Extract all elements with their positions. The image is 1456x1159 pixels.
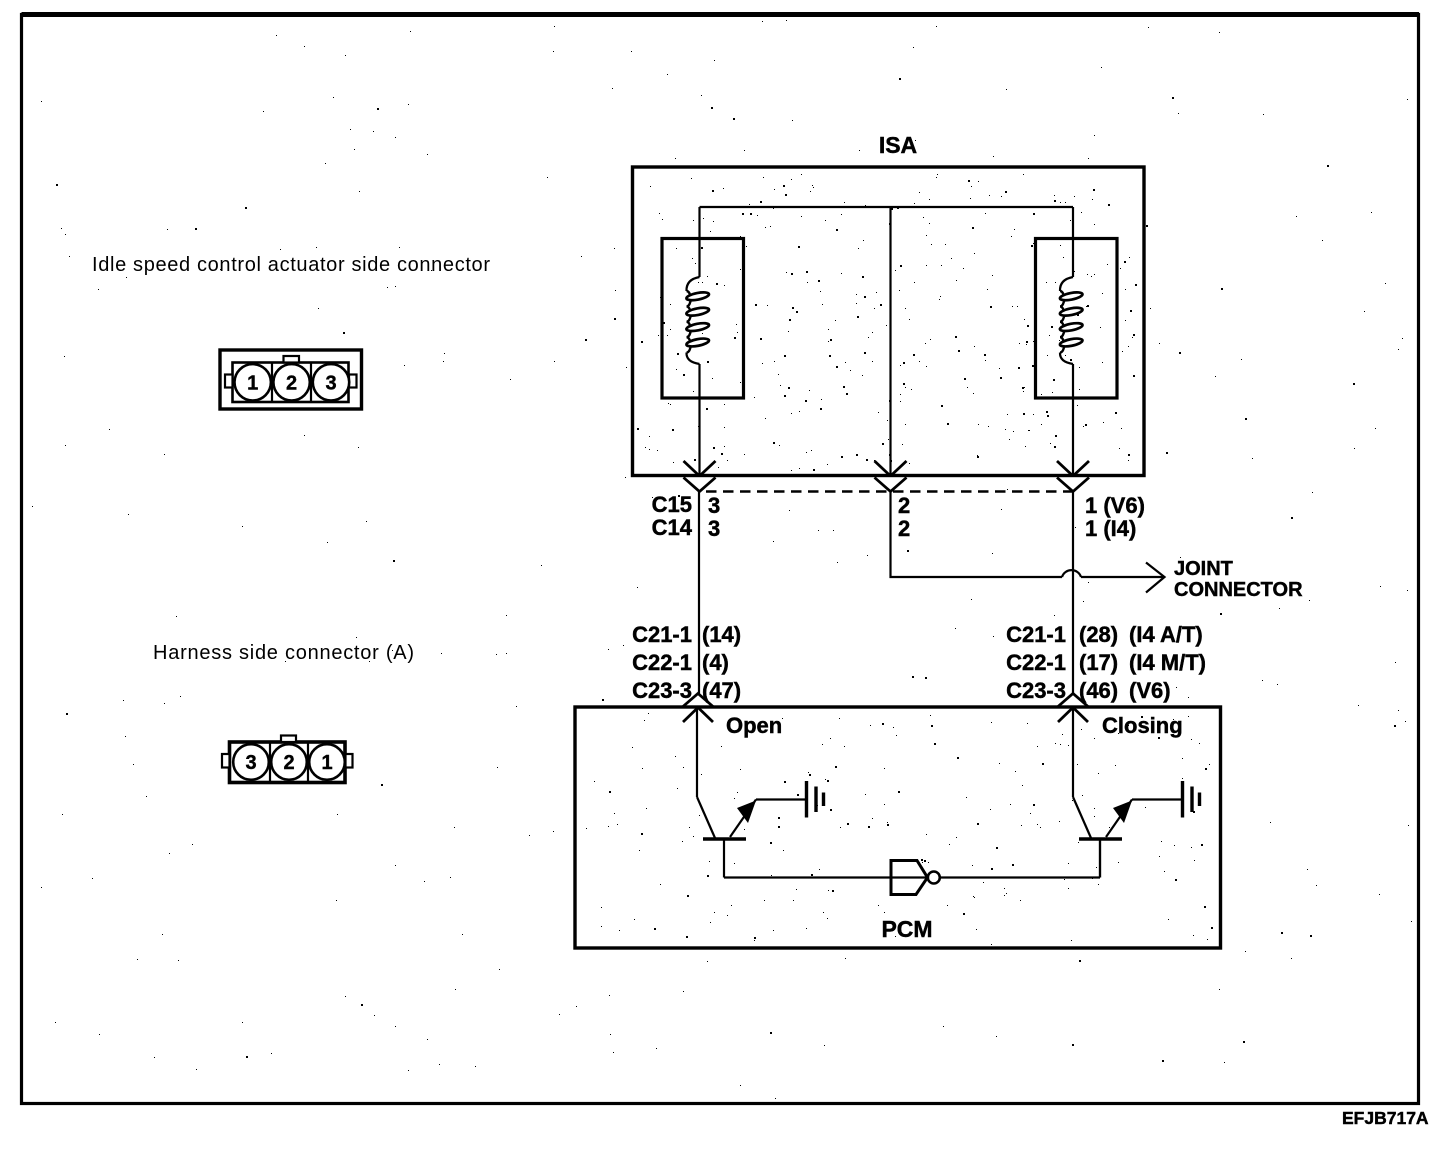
- svg-text:(V6): (V6): [1129, 678, 1171, 703]
- svg-text:(28): (28): [1079, 622, 1118, 647]
- svg-text:C15: C15: [652, 492, 692, 517]
- svg-text:C21-1: C21-1: [632, 622, 692, 647]
- svg-text:C14: C14: [652, 515, 693, 540]
- svg-text:(17): (17): [1079, 650, 1118, 675]
- svg-text:C22-1: C22-1: [1006, 650, 1066, 675]
- svg-text:3: 3: [708, 516, 720, 541]
- svg-text:(I4 A/T): (I4 A/T): [1129, 622, 1203, 647]
- svg-text:Closing: Closing: [1102, 713, 1183, 738]
- svg-text:ISA: ISA: [879, 132, 917, 158]
- svg-text:CONNECTOR: CONNECTOR: [1174, 579, 1303, 601]
- svg-text:C23-3: C23-3: [632, 678, 692, 703]
- svg-text:Harness side connector (A): Harness side connector (A): [153, 642, 414, 664]
- svg-text:PCM: PCM: [881, 916, 932, 942]
- svg-text:2: 2: [286, 373, 297, 395]
- svg-text:EFJB717A: EFJB717A: [1342, 1108, 1429, 1128]
- svg-text:1 (V6): 1 (V6): [1085, 493, 1145, 518]
- svg-text:C22-1: C22-1: [632, 650, 692, 675]
- svg-text:(46): (46): [1079, 678, 1118, 703]
- svg-text:1: 1: [321, 752, 332, 774]
- svg-text:JOINT: JOINT: [1174, 558, 1233, 580]
- svg-text:Open: Open: [726, 713, 782, 738]
- svg-text:3: 3: [708, 493, 720, 518]
- svg-text:(I4 M/T): (I4 M/T): [1129, 650, 1206, 675]
- svg-text:1: 1: [247, 373, 258, 395]
- svg-text:C21-1: C21-1: [1006, 622, 1066, 647]
- svg-text:2: 2: [283, 752, 294, 774]
- svg-text:(14): (14): [702, 622, 741, 647]
- svg-text:3: 3: [245, 752, 256, 774]
- svg-text:3: 3: [325, 373, 336, 395]
- svg-text:(4): (4): [702, 650, 729, 675]
- svg-text:(47): (47): [702, 678, 741, 703]
- svg-text:2: 2: [898, 493, 910, 518]
- svg-text:2: 2: [898, 516, 910, 541]
- svg-text:Idle speed control actuator si: Idle speed control actuator side connect…: [92, 254, 490, 276]
- svg-text:C23-3: C23-3: [1006, 678, 1066, 703]
- svg-text:1 (I4): 1 (I4): [1085, 516, 1136, 541]
